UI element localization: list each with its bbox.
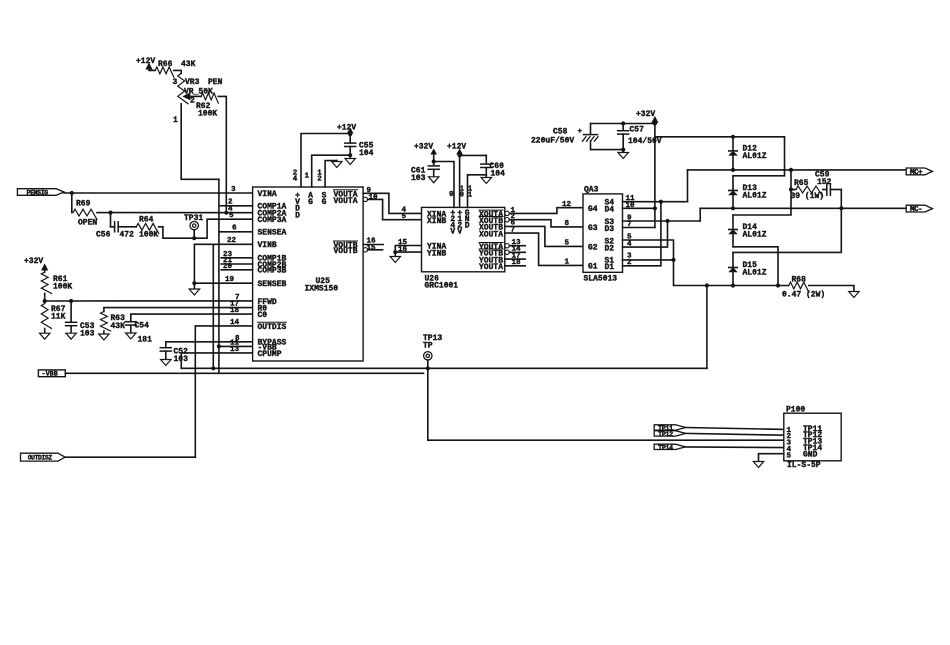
resistor R64 xyxy=(136,223,158,233)
svg-text:C0: C0 xyxy=(258,311,268,320)
capacitor C61 xyxy=(433,162,435,166)
capacitor C55 xyxy=(349,134,351,142)
U25 stub pin 20 COMP3B xyxy=(221,269,252,271)
svg-text:15: 15 xyxy=(367,245,377,253)
wire R68 to ground xyxy=(809,286,854,292)
connector MC- xyxy=(906,205,932,212)
svg-text:19: 19 xyxy=(225,276,235,284)
connector TP14 tag xyxy=(654,444,685,449)
wire down to R69 xyxy=(71,193,73,213)
stub U26 YOUTB pin 14 xyxy=(509,251,525,253)
svg-text:PENSIG: PENSIG xyxy=(27,189,49,196)
wire TP12 to P100 pin 2 xyxy=(686,433,784,435)
svg-text:YINB: YINB xyxy=(427,249,446,258)
svg-text:AL01Z: AL01Z xyxy=(743,231,767,240)
diode D14 AL01Z xyxy=(732,215,734,247)
svg-text:IXMS150: IXMS150 xyxy=(305,285,339,294)
wire +12V to C60 xyxy=(460,154,487,156)
svg-text:1: 1 xyxy=(173,116,178,125)
wire -VBB line xyxy=(65,372,423,374)
connector OUTDISZ xyxy=(21,453,66,461)
wire +12V to U26 pin 10 xyxy=(459,154,461,207)
wire S3 to MC- riser xyxy=(623,220,701,222)
wire MC+ riser xyxy=(687,170,689,202)
svg-text:R69: R69 xyxy=(76,200,91,209)
node R65 left junction xyxy=(789,187,793,191)
node R61/R67/FFWD junction xyxy=(43,299,47,303)
capacitor C59 xyxy=(823,189,827,191)
svg-text:COMP3A: COMP3A xyxy=(258,216,287,225)
ground (U26 YIN) xyxy=(394,252,396,256)
svg-text:OUTDISZ: OUTDISZ xyxy=(28,455,53,462)
wire S3-D2 vertical xyxy=(623,221,668,247)
svg-text:G: G xyxy=(308,198,313,207)
wire C59 down through MC- to D15 xyxy=(733,190,841,253)
wire YINB to ground node xyxy=(395,251,421,253)
svg-text:AL01Z: AL01Z xyxy=(743,269,767,278)
ground (C57/C58) xyxy=(618,153,628,159)
svg-text:43K: 43K xyxy=(181,60,196,69)
svg-text:100K: 100K xyxy=(139,231,158,240)
svg-text:+32V: +32V xyxy=(414,143,433,152)
ground (C60) xyxy=(485,175,487,178)
svg-text:D: D xyxy=(295,211,300,220)
connector PENSIG xyxy=(17,189,64,196)
resistor R62 xyxy=(201,93,218,103)
stub U25 pin 16 VOUTB xyxy=(363,244,383,246)
svg-text:-VBB: -VBB xyxy=(42,371,58,379)
svg-text:100K: 100K xyxy=(198,110,217,119)
wire PENSIG to U25 VINA pin 3 xyxy=(64,192,253,194)
svg-text:G4: G4 xyxy=(588,205,598,214)
svg-text:+32V: +32V xyxy=(24,257,43,266)
diode D15 AL01Z xyxy=(732,252,734,285)
ground (C54) xyxy=(130,325,132,333)
svg-text:+12V: +12V xyxy=(136,57,155,66)
svg-text:R66: R66 xyxy=(158,60,173,69)
capacitor C56 xyxy=(114,222,116,232)
wire S4-D1 vertical xyxy=(623,202,661,266)
wire R64 to COMP3A via TP31 node xyxy=(159,219,253,238)
ground (C53) xyxy=(70,326,72,334)
svg-text:+12V: +12V xyxy=(447,143,466,152)
node VINB sense junction xyxy=(211,366,215,370)
wire MC- riser xyxy=(699,208,701,221)
svg-text:AL01Z: AL01Z xyxy=(743,192,767,201)
svg-text:C58: C58 xyxy=(553,128,568,137)
wire C58 bottom to ground node xyxy=(591,141,624,149)
wire BYPASS line to U25 pin 8 xyxy=(166,342,253,348)
wire VR3 pin1 down and right xyxy=(181,104,219,180)
svg-text:103: 103 xyxy=(80,330,95,339)
node MC-/C59 junction xyxy=(839,206,843,210)
svg-text:8: 8 xyxy=(565,220,570,228)
svg-text:GND: GND xyxy=(803,450,818,459)
svg-text:SLA5013: SLA5013 xyxy=(584,275,618,284)
svg-text:COMP3B: COMP3B xyxy=(258,267,287,276)
svg-text:18: 18 xyxy=(230,307,240,315)
svg-text:IL-S-5P: IL-S-5P xyxy=(787,461,821,470)
svg-text:OPEN: OPEN xyxy=(78,219,97,228)
svg-text:3: 3 xyxy=(231,186,236,194)
svg-text:SENSEA: SENSEA xyxy=(258,229,287,238)
svg-text:6: 6 xyxy=(232,225,237,233)
svg-text:12: 12 xyxy=(562,201,572,209)
wire U25 pin 24 to +12V xyxy=(301,134,349,188)
svg-text:22: 22 xyxy=(227,237,237,245)
U25 stub pin 2 COMP1A xyxy=(221,205,253,207)
svg-text:D2: D2 xyxy=(605,244,615,253)
wire R62 to COMP2A node xyxy=(218,96,226,212)
wire U25 pin 12 to ground xyxy=(325,161,337,187)
VR3 wiper arrow (pin 2) xyxy=(183,93,189,99)
svg-text:D1: D1 xyxy=(605,263,615,272)
svg-text:TP: TP xyxy=(423,342,433,351)
svg-text:2: 2 xyxy=(317,176,322,184)
wire rail to D13 jog xyxy=(733,137,785,176)
ground (R67) xyxy=(44,329,46,334)
wire VR3 pin1/SENSEA/-VBB vertical xyxy=(218,179,220,373)
svg-text:XINB: XINB xyxy=(427,217,446,226)
node YIN ground junction xyxy=(393,250,397,254)
wire wiper to R62 xyxy=(190,95,201,97)
wire OUTDISZ to OUTDIS vertical xyxy=(65,456,195,458)
wire C56 to R64 xyxy=(118,226,136,228)
U25 pin 15 inversion bubble xyxy=(363,248,367,252)
U25 stub pin 21 COMP2B xyxy=(221,263,252,265)
resistor R67 xyxy=(41,304,51,329)
wire S2 to sense rail xyxy=(623,240,789,286)
stub U25 pin 15 VOUTB xyxy=(368,249,383,251)
capacitor C53 xyxy=(66,321,77,323)
wire MC- line xyxy=(700,207,906,209)
wire D4 to +32V xyxy=(623,207,655,209)
node -VBB pin junction xyxy=(217,344,221,348)
node D14/sense rail junction xyxy=(776,283,780,287)
capacitor C58 (polarized) xyxy=(590,124,592,134)
wire TP11 to P100 pin 1 xyxy=(686,428,784,430)
svg-text:103: 103 xyxy=(411,174,426,183)
wire down to C53 xyxy=(70,301,72,322)
node PENSIG junction xyxy=(70,191,74,195)
svg-text:104/50V: 104/50V xyxy=(628,137,662,146)
resistor R61 xyxy=(41,272,51,293)
wire TP13 down to P100 pin 3 xyxy=(428,368,784,440)
wire -VBB pin line to U25 pin 11 xyxy=(219,345,253,347)
svg-text:MC-: MC- xyxy=(910,206,922,214)
svg-text:GRC1001: GRC1001 xyxy=(425,282,459,291)
node D4/+32V junction xyxy=(653,206,657,210)
svg-text:G1: G1 xyxy=(588,263,598,272)
svg-text:104: 104 xyxy=(359,149,374,158)
U26 pin 2 bubble xyxy=(505,218,509,222)
svg-text:220uF/50V: 220uF/50V xyxy=(531,137,574,146)
wire down to C56 xyxy=(110,213,112,227)
ground (R68) xyxy=(849,292,859,298)
node sense rail/TP13 junction xyxy=(705,283,709,287)
wire U26 XOUTA pin 1 to QA3 G4 xyxy=(509,208,583,214)
wire P100 pin 5 GND xyxy=(759,454,784,462)
wire S1 line xyxy=(623,259,674,261)
wire C57 bottom to ground xyxy=(622,134,624,152)
wire +32V diode rail xyxy=(655,136,785,138)
node S1/S2 junction xyxy=(671,258,675,262)
ground (P100) xyxy=(753,462,763,468)
wire +32V to R61 xyxy=(44,270,46,273)
stub U26 YOUTA pin 18 xyxy=(505,265,525,267)
svg-text:472: 472 xyxy=(120,231,135,240)
svg-text:C57: C57 xyxy=(630,126,645,135)
svg-text:13: 13 xyxy=(230,346,240,354)
svg-text:+32V: +32V xyxy=(636,110,655,119)
node S3/D2 junction xyxy=(665,219,669,223)
wire C60 bottom to U26 pin 11 GND xyxy=(485,168,487,175)
svg-text:OUTDIS: OUTDIS xyxy=(258,323,287,332)
svg-text:5: 5 xyxy=(787,452,792,460)
capacitor C57 xyxy=(621,121,625,125)
wire U25 pin 10 VOUTA to U26 XINB xyxy=(368,199,422,219)
svg-text:SENSEB: SENSEB xyxy=(258,280,287,289)
node TP31 junction xyxy=(192,236,196,240)
wire +32V vertical to D4/D3 xyxy=(654,122,656,228)
svg-text:VOUTA: VOUTA xyxy=(333,197,357,206)
wire CPUMP line to U25 pin 13 xyxy=(181,352,252,354)
svg-text:D4: D4 xyxy=(605,206,615,215)
wire sense rail down to TP13 line xyxy=(706,286,708,369)
resistor R69 xyxy=(73,209,97,219)
svg-text:1: 1 xyxy=(565,259,570,267)
node +12V/C55 junction xyxy=(348,132,352,136)
wire C55 bottom to U25 pin 1 xyxy=(349,147,351,156)
svg-text:R68: R68 xyxy=(792,276,807,285)
wire D3 to +32V xyxy=(623,227,655,229)
U26 pin 1 bubble xyxy=(505,211,509,215)
ground (C52) xyxy=(165,351,167,359)
ground (U25 pin 12) xyxy=(336,160,338,163)
wire OUTDIS line to U25 pin 14 xyxy=(195,326,252,457)
wire U25 pin 9 VOUTA to U26 XINA xyxy=(363,193,421,213)
svg-text:11K: 11K xyxy=(51,313,66,322)
node TP13 junction xyxy=(426,366,430,370)
svg-text:2: 2 xyxy=(190,97,195,106)
wire FFWD line to U25 pin 7 xyxy=(45,300,253,302)
node C53 junction xyxy=(69,299,73,303)
node +32V/C57 rail junction xyxy=(653,121,657,125)
wire D14 bottom to sense rail xyxy=(733,247,778,286)
svg-text:VOUTB: VOUTB xyxy=(333,247,357,256)
connector -VBB xyxy=(38,370,65,377)
svg-text:181: 181 xyxy=(138,336,153,345)
connector MC+ xyxy=(906,168,932,175)
wire +32V to U26 pin 9 xyxy=(433,154,435,162)
node D13/MC- junction xyxy=(731,206,735,210)
svg-text:10: 10 xyxy=(369,194,379,202)
svg-text:104: 104 xyxy=(491,170,506,179)
svg-text:V: V xyxy=(450,228,455,237)
svg-text:TP12: TP12 xyxy=(658,431,673,439)
svg-text:100K: 100K xyxy=(53,283,72,292)
svg-text:G3: G3 xyxy=(588,224,598,233)
svg-text:MC+: MC+ xyxy=(910,169,923,177)
svg-text:CPUMP: CPUMP xyxy=(258,350,282,359)
node MC+/R65 junction xyxy=(789,168,793,172)
svg-text:39 (1W): 39 (1W) xyxy=(791,192,825,201)
svg-text:G: G xyxy=(322,198,327,207)
svg-text:V: V xyxy=(457,228,462,237)
resistor R68 xyxy=(789,282,809,292)
wire MC+ down to R65 and D14 xyxy=(733,170,791,215)
wire U26 XOUTB pin 2 to QA3 G3 xyxy=(509,220,583,227)
wire YINA to ground node xyxy=(395,246,421,253)
svg-text:0.47 (2W): 0.47 (2W) xyxy=(782,291,825,300)
svg-text:C56: C56 xyxy=(96,231,111,240)
svg-text:R65: R65 xyxy=(794,179,809,188)
svg-text:1: 1 xyxy=(468,191,472,199)
ground (SENSEB) xyxy=(189,289,199,295)
stub U26 YOUTA pin 13 xyxy=(509,245,525,247)
svg-text:YOUTA: YOUTA xyxy=(479,263,503,272)
wire C57/C58 rail xyxy=(591,123,655,125)
wire R66 to VR3 top xyxy=(174,70,181,73)
svg-text:PEN: PEN xyxy=(208,78,223,87)
wire SENSEB vertical xyxy=(193,244,195,289)
wire SENSEB line to U25 pin 19 xyxy=(194,282,252,284)
resistor R63 xyxy=(101,312,111,332)
svg-text:AL01Z: AL01Z xyxy=(743,152,767,161)
wire R61 to FFWD node xyxy=(44,293,46,301)
potentiometer VR3 (VR_50K PEN) xyxy=(178,73,188,103)
svg-text:VINB: VINB xyxy=(258,241,277,250)
U26 pin 13 bubble xyxy=(505,244,509,248)
capacitor C54 xyxy=(125,321,136,323)
capacitor C60 xyxy=(485,155,487,163)
svg-text:4: 4 xyxy=(293,176,298,184)
node COMP2A/R62 junction xyxy=(224,211,228,215)
U25 stub pin 23 COMP1B xyxy=(221,257,252,259)
svg-text:VR3: VR3 xyxy=(185,78,200,87)
wire +12V to R66 xyxy=(149,69,155,71)
svg-text:1: 1 xyxy=(305,173,310,181)
svg-text:QA3: QA3 xyxy=(584,186,599,195)
U26 pin 14 bubble xyxy=(505,250,509,254)
node D12 top junction xyxy=(731,135,735,139)
wire VINB line to U25 pin 22 xyxy=(194,243,252,245)
ground (C61) xyxy=(433,169,435,177)
connector TP12 tag xyxy=(654,431,685,436)
svg-text:+: + xyxy=(577,128,582,136)
op-amp U25 IXMS150 body xyxy=(253,187,364,361)
svg-text:5: 5 xyxy=(229,212,234,220)
svg-text:3: 3 xyxy=(173,78,178,87)
svg-text:43K: 43K xyxy=(111,322,126,331)
wire S4 to MC+ riser xyxy=(623,201,688,203)
node D12/MC+ junction xyxy=(731,168,735,172)
wire VINB sense vertical xyxy=(212,244,214,368)
U25 pin 10 inversion bubble xyxy=(363,197,367,201)
svg-text:R64: R64 xyxy=(139,216,154,225)
svg-text:5: 5 xyxy=(402,213,407,221)
svg-text:152: 152 xyxy=(817,178,832,187)
svg-text:C54: C54 xyxy=(135,322,150,331)
wire SENSEA line to U25 pin 6 xyxy=(219,231,253,233)
svg-text:D3: D3 xyxy=(605,225,615,234)
wire sense/TP13 long line xyxy=(181,367,707,369)
node S4/D1 junction xyxy=(659,200,663,204)
wire R69 to COMP2A line xyxy=(97,212,111,214)
wire U26 XOUTA pin 7 to QA3 G1 xyxy=(505,233,583,265)
svg-text:G2: G2 xyxy=(588,244,598,253)
node +12V/C60 junction xyxy=(458,153,462,157)
node SENSEB junction xyxy=(192,281,196,285)
svg-text:VINA: VINA xyxy=(258,190,277,199)
svg-text:XOUTA: XOUTA xyxy=(479,230,503,239)
ground (C55) xyxy=(349,155,351,158)
ground (R63) xyxy=(103,331,105,334)
diode D13 AL01Z xyxy=(732,176,734,209)
wire R0 line to U25 pin 17 xyxy=(104,308,253,312)
svg-text:5: 5 xyxy=(565,240,570,248)
stub U26 YOUTB pin 17 xyxy=(505,258,525,260)
diode D12 AL01Z xyxy=(732,137,734,170)
svg-text:D: D xyxy=(465,221,470,230)
node D15/sense rail junction xyxy=(731,283,735,287)
resistor R65 xyxy=(791,189,796,191)
wire COMP2A to U25 pin 4 xyxy=(111,212,253,214)
node R69/C56 junction xyxy=(108,211,112,215)
svg-text:TP14: TP14 xyxy=(658,444,673,452)
capacitor C52 xyxy=(160,347,171,349)
converter U26 GRC1001 body xyxy=(422,207,505,271)
wire U26 XOUTB pin 6 to QA3 G2 xyxy=(505,226,583,246)
wire C0 line to U25 pin 18 xyxy=(131,314,253,321)
connector TP11 tag xyxy=(654,425,685,430)
resistor R66 xyxy=(155,67,174,77)
svg-text:+12V: +12V xyxy=(337,124,356,133)
wire MC+ line xyxy=(688,169,907,171)
wire CPUMP down to sense line xyxy=(180,353,182,368)
svg-text:14: 14 xyxy=(230,319,240,327)
wire TP14 to P100 pin 4 xyxy=(686,446,784,449)
